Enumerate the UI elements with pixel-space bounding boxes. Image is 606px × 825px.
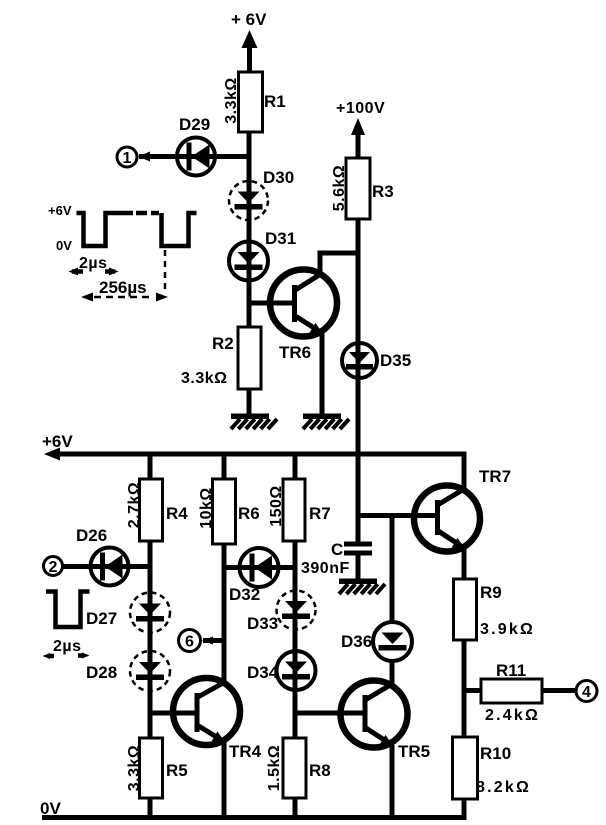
wire R8 bottom to 0V rail — [293, 798, 298, 818]
transistor TR5 — [341, 681, 408, 748]
svg-text:TR6: TR6 — [279, 343, 311, 362]
wire R10 bottom to 0V rail — [462, 799, 467, 818]
svg-text:D32: D32 — [229, 585, 260, 604]
svg-text:+6V: +6V — [48, 203, 72, 218]
wire +6V rail corner to TR7 collector — [462, 452, 467, 490]
resistor R7 — [283, 479, 305, 541]
resistor R8 — [283, 738, 306, 798]
resistor R5 — [140, 738, 163, 798]
svg-text:0V: 0V — [56, 238, 72, 253]
transistor TR6 — [270, 270, 337, 337]
svg-text:R3: R3 — [372, 182, 394, 201]
svg-text:256µs: 256µs — [99, 278, 147, 297]
ground (below TR6 emitter) — [303, 414, 349, 430]
svg-text:+6V: +6V — [42, 432, 73, 451]
svg-text:1.5kΩ: 1.5kΩ — [266, 745, 283, 791]
svg-text:10kΩ: 10kΩ — [198, 487, 215, 529]
resistor R10 — [453, 737, 478, 799]
resistor R1 — [239, 72, 263, 132]
svg-text:+100V: +100V — [336, 100, 385, 117]
wire D36 branch from TR7 base line — [390, 516, 395, 623]
svg-text:+ 6V: + 6V — [231, 10, 267, 29]
rail 0V (bottom) — [40, 799, 467, 818]
transistor TR7 — [414, 486, 480, 552]
diode D32 — [240, 548, 279, 587]
diode D36 — [373, 622, 412, 661]
svg-text:D28: D28 — [86, 663, 117, 682]
svg-text:R1: R1 — [264, 92, 286, 111]
diode D28 — [130, 651, 170, 691]
node 1 (circled terminal) — [117, 147, 137, 167]
wire R6 top stub — [222, 454, 227, 479]
svg-text:R11: R11 — [496, 661, 526, 680]
diode D27 — [130, 593, 170, 633]
svg-text:6: 6 — [185, 634, 194, 651]
wire R5 bottom to 0V rail — [148, 798, 153, 818]
svg-text:D26: D26 — [76, 526, 107, 545]
wire TR4 base from D28/R5 line — [150, 711, 195, 716]
diode D35 — [342, 343, 377, 378]
diode D31 — [229, 242, 268, 281]
ground (below R2) — [231, 414, 277, 430]
resistor R9 — [454, 579, 477, 640]
svg-text:R10: R10 — [480, 744, 511, 763]
resistor R6 — [213, 479, 236, 544]
wire TR7 emitter to R9 — [462, 548, 467, 579]
wire D36 to TR5 collector — [390, 661, 395, 684]
wire TR7 base junction down to capacitor C — [356, 516, 361, 544]
svg-text:R8: R8 — [309, 761, 331, 780]
svg-text:2µs: 2µs — [79, 255, 108, 272]
wire node1 to junction on R1 line — [139, 154, 249, 159]
power +100V (supply arrow and label) — [336, 100, 385, 158]
resistor R4 — [140, 479, 163, 541]
diode D34 — [277, 651, 316, 690]
svg-text:C: C — [331, 540, 343, 559]
svg-text:2.7kΩ: 2.7kΩ — [126, 482, 143, 528]
wire R3 bottom through D35 down to TR7 base junction — [356, 219, 361, 516]
dimension 256µs (waveform 1) — [81, 250, 168, 302]
svg-text:TR5: TR5 — [398, 742, 430, 761]
diode D26 — [91, 548, 129, 586]
svg-text:8.2kΩ: 8.2kΩ — [476, 779, 531, 796]
svg-text:R7: R7 — [309, 504, 331, 523]
wire TR6 emitter to ground — [320, 333, 325, 415]
svg-text:150Ω: 150Ω — [268, 485, 285, 527]
wire R1 bottom to D31 via D30 — [247, 132, 252, 327]
svg-text:3.3kΩ: 3.3kΩ — [126, 745, 143, 791]
svg-text:D35: D35 — [380, 351, 411, 370]
diode D29 — [177, 138, 215, 176]
svg-text:3.3kΩ: 3.3kΩ — [181, 370, 227, 387]
svg-text:R2: R2 — [212, 334, 234, 353]
wire R6 bottom to TR4 collector — [222, 544, 227, 683]
input waveform at node 2 (single negative pulse) — [46, 592, 90, 628]
svg-text:R6: R6 — [238, 504, 260, 523]
wire R4 top stub — [148, 454, 153, 479]
svg-text:D27: D27 — [86, 609, 117, 628]
wire TR6 collector to R3/D35 line — [320, 253, 358, 275]
resistor R2 — [238, 327, 261, 389]
svg-text:4: 4 — [582, 684, 591, 701]
node 6 (circled terminal) — [179, 630, 201, 652]
svg-text:390nF: 390nF — [301, 560, 350, 577]
node 2 (circled terminal) — [44, 557, 63, 577]
input waveform at node 1 (+6V/0V pulse train) — [48, 203, 197, 253]
svg-text:3.3kΩ: 3.3kΩ — [223, 77, 240, 123]
wire R9 bottom to R10 top (junction with R11) — [462, 640, 467, 737]
svg-text:R9: R9 — [480, 583, 502, 602]
svg-text:2: 2 — [49, 559, 58, 576]
svg-text:R4: R4 — [166, 504, 188, 523]
capacitor C — [344, 542, 372, 581]
power +6V (top supply arrow and label) — [231, 10, 267, 72]
wire junction to R11 — [464, 688, 481, 693]
svg-text:D29: D29 — [179, 115, 210, 134]
wire R11 to node 4 — [542, 688, 576, 693]
wire TR5 emitter to 0V rail — [390, 745, 395, 818]
wire TR4 emitter to 0V rail — [222, 742, 227, 819]
wire node2 through D26 to R4 line — [62, 564, 150, 569]
svg-text:TR4: TR4 — [229, 742, 262, 761]
wire TR7 base junction to base bar — [358, 513, 435, 518]
wire R7 bottom through D33/D34 to R8 — [293, 541, 298, 738]
node 4 (circled terminal) — [576, 681, 597, 702]
diode D33 — [277, 591, 316, 630]
svg-text:D33: D33 — [247, 614, 278, 633]
wire D32 from R6 line to R7 line — [224, 565, 295, 570]
svg-text:R5: R5 — [166, 761, 188, 780]
svg-text:D31: D31 — [265, 229, 296, 248]
resistor R11 — [481, 679, 542, 703]
resistor R3 — [346, 158, 370, 219]
wire R4 bottom through D27/D28 to R5 — [148, 541, 153, 738]
dimension 2µs (waveform 2) — [43, 638, 90, 659]
diode D30 — [229, 181, 268, 220]
svg-text:3.9kΩ: 3.9kΩ — [480, 621, 535, 638]
dimension 2µs (waveform 1) — [69, 255, 119, 276]
rail +6V (lower section) — [42, 432, 464, 461]
svg-text:TR7: TR7 — [479, 467, 511, 486]
ground (below C) — [339, 579, 385, 595]
wire R2 bottom to ground — [247, 389, 252, 415]
wire R7 top stub — [293, 454, 298, 479]
svg-text:2µs: 2µs — [53, 638, 82, 655]
svg-text:D36: D36 — [341, 632, 372, 651]
wire TR5 base from D34/R8 junction — [295, 711, 363, 716]
svg-text:D34: D34 — [247, 663, 279, 682]
svg-text:1: 1 — [123, 150, 132, 167]
wire node6 to R6/TR4 line — [203, 638, 224, 643]
svg-text:5.6kΩ: 5.6kΩ — [331, 165, 348, 211]
transistor TR4 — [173, 678, 240, 745]
svg-text:2.4kΩ: 2.4kΩ — [485, 707, 540, 724]
wire TR6 base from D31/R2 line — [249, 301, 292, 306]
svg-text:D30: D30 — [263, 168, 294, 187]
